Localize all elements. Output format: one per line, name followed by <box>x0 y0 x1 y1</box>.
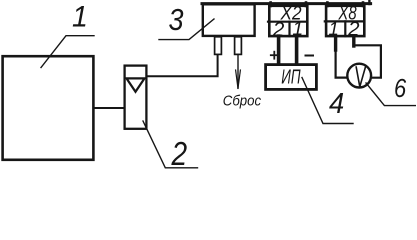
svg-text:6: 6 <box>394 74 407 103</box>
svg-text:2: 2 <box>272 18 285 41</box>
svg-text:2: 2 <box>171 136 188 173</box>
svg-text:2: 2 <box>347 18 360 41</box>
svg-text:1: 1 <box>328 18 338 39</box>
svg-text:1: 1 <box>72 1 88 34</box>
svg-text:Сброс: Сброс <box>223 92 261 109</box>
svg-text:3: 3 <box>169 3 184 37</box>
svg-text:ИП: ИП <box>281 66 301 88</box>
svg-text:4: 4 <box>329 87 344 119</box>
svg-text:1: 1 <box>292 18 303 40</box>
